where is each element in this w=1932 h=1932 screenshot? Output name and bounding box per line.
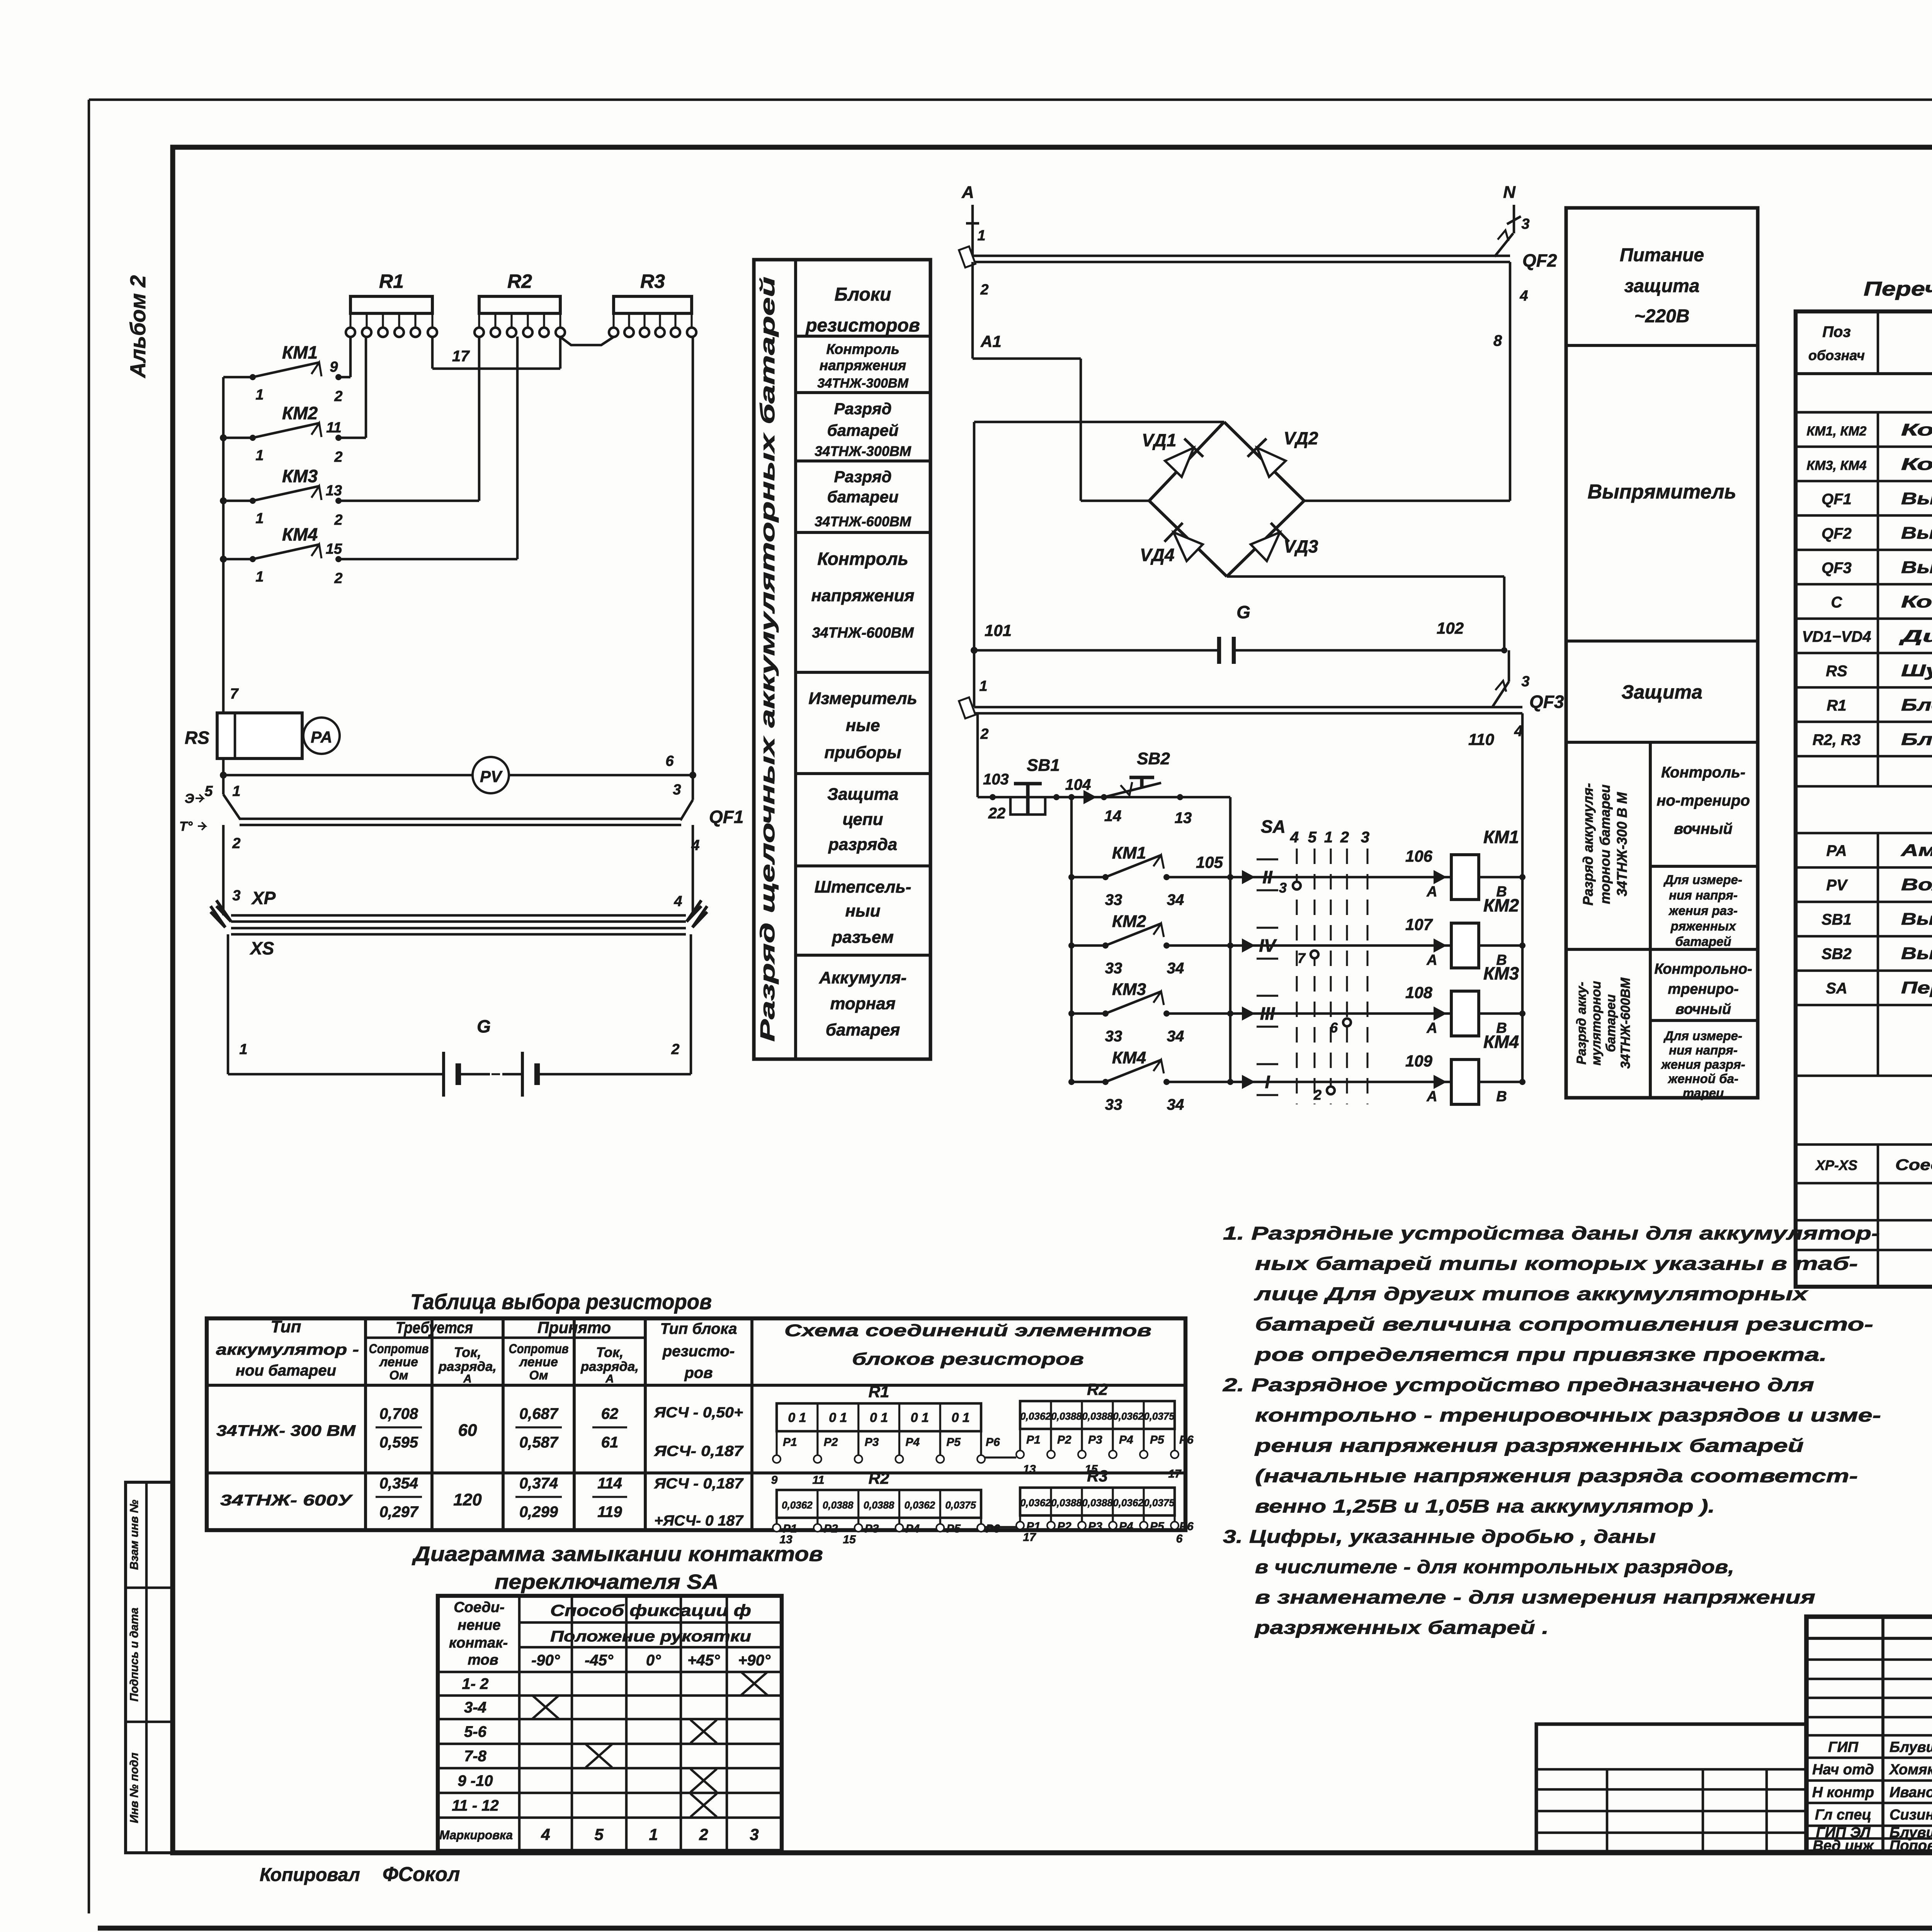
svg-text:SB1: SB1 bbox=[1027, 756, 1060, 775]
svg-text:Р2: Р2 bbox=[1057, 1520, 1071, 1533]
svg-text:PV: PV bbox=[1826, 877, 1848, 894]
svg-text:3: 3 bbox=[1521, 216, 1529, 232]
svg-text:Р2: Р2 bbox=[1057, 1434, 1071, 1446]
svg-text:0,299: 0,299 bbox=[519, 1503, 558, 1520]
svg-text:0,0388: 0,0388 bbox=[823, 1499, 854, 1511]
svg-text:Р4: Р4 bbox=[905, 1522, 920, 1535]
svg-text:ХР: ХР bbox=[251, 888, 276, 908]
svg-text:QF3: QF3 bbox=[1821, 560, 1852, 577]
svg-text:34ТНЖ-300 В М: 34ТНЖ-300 В М bbox=[1614, 792, 1630, 896]
svg-text:Р1: Р1 bbox=[783, 1436, 797, 1449]
svg-text:SB2: SB2 bbox=[1821, 946, 1852, 963]
svg-text:Вольтметр М4203. Предел 0-7: Вольтметр М4203. Предел 0-75 В bbox=[1901, 875, 1932, 894]
svg-text:Разряд: Разряд bbox=[834, 400, 891, 418]
svg-text:RS: RS bbox=[1826, 663, 1847, 680]
svg-text:ХР-ХS: ХР-ХS bbox=[1815, 1157, 1857, 1173]
svg-text:VД1: VД1 bbox=[1142, 430, 1176, 450]
svg-text:6: 6 bbox=[1176, 1532, 1183, 1545]
svg-text:Блувштейн: Блувштейн bbox=[1889, 1739, 1932, 1755]
svg-text:батареи: батареи bbox=[1604, 994, 1618, 1052]
svg-text:батарей величина сопротивлен: батарей величина сопротивления резисто- bbox=[1255, 1315, 1873, 1335]
svg-text:R3: R3 bbox=[640, 270, 665, 292]
svg-text:приборы: приборы bbox=[824, 743, 901, 762]
svg-text:IV: IV bbox=[1259, 935, 1277, 956]
svg-text:ров: ров bbox=[684, 1364, 713, 1381]
svg-text:Р5: Р5 bbox=[946, 1522, 961, 1535]
svg-text:0,0388: 0,0388 bbox=[1051, 1410, 1082, 1422]
svg-text:108: 108 bbox=[1405, 983, 1433, 1002]
svg-text:Р4: Р4 bbox=[1119, 1434, 1133, 1446]
svg-text:Выключатель ВА51-25Р, ~220В ,: Выключатель ВА51-25Р, ~220В , Эр=6,3А bbox=[1901, 524, 1932, 543]
svg-text:Перечень элементов принципиаль: Перечень элементов принципиальнои схемы bbox=[1864, 278, 1932, 300]
svg-text:105: 105 bbox=[1196, 853, 1223, 871]
svg-text:0,0388: 0,0388 bbox=[1082, 1497, 1113, 1509]
svg-text:9: 9 bbox=[330, 359, 338, 375]
svg-text:РА: РА bbox=[311, 728, 332, 746]
svg-text:109: 109 bbox=[1405, 1052, 1433, 1070]
svg-text:Для измере-: Для измере- bbox=[1663, 1029, 1742, 1043]
svg-text:1: 1 bbox=[255, 510, 264, 527]
svg-text:ния напря-: ния напря- bbox=[1669, 888, 1738, 902]
svg-text:+90°: +90° bbox=[738, 1652, 771, 1669]
svg-text:КМ3: КМ3 bbox=[282, 466, 318, 486]
svg-text:0,0362: 0,0362 bbox=[1020, 1410, 1051, 1422]
svg-text:батарея: батарея bbox=[826, 1020, 900, 1039]
svg-text:107: 107 bbox=[1405, 915, 1433, 934]
svg-text:Штепсель-: Штепсель- bbox=[815, 878, 912, 896]
svg-text:SB2: SB2 bbox=[1137, 749, 1170, 768]
svg-text:рения напряжения разряженных: рения напряжения разряженных батарей bbox=[1254, 1436, 1804, 1456]
svg-text:2: 2 bbox=[1340, 829, 1349, 846]
svg-text:тареи: тареи bbox=[1683, 1086, 1724, 1100]
svg-text:Р5: Р5 bbox=[1150, 1434, 1165, 1446]
svg-text:120: 120 bbox=[453, 1490, 482, 1509]
svg-text:Р3: Р3 bbox=[1088, 1434, 1102, 1446]
svg-text:защита: защита bbox=[1624, 276, 1700, 296]
svg-text:КМ1: КМ1 bbox=[1483, 827, 1519, 847]
svg-text:0,0375: 0,0375 bbox=[945, 1499, 976, 1511]
svg-text:17: 17 bbox=[1023, 1531, 1036, 1544]
svg-text:34ТНЖ-600ВМ: 34ТНЖ-600ВМ bbox=[1618, 978, 1633, 1069]
svg-text:Контроль: Контроль bbox=[826, 341, 899, 357]
svg-text:3: 3 bbox=[232, 888, 240, 904]
svg-text:Защита: Защита bbox=[1621, 681, 1702, 703]
svg-text:7-8: 7-8 bbox=[464, 1748, 487, 1765]
svg-text:Сопротив: Сопротив bbox=[369, 1342, 429, 1356]
svg-text:А1: А1 bbox=[980, 332, 1002, 350]
svg-text:3: 3 bbox=[1521, 673, 1529, 690]
svg-text:Шунт 150 ШСМУЗ- 0,5: Шунт 150 ШСМУЗ- 0,5 bbox=[1901, 661, 1932, 680]
svg-text:3: 3 bbox=[1279, 880, 1287, 896]
svg-text:15: 15 bbox=[326, 541, 342, 557]
svg-text:RS: RS bbox=[185, 728, 209, 748]
svg-text:торнои батареи: торнои батареи bbox=[1597, 784, 1613, 904]
svg-text:Р4: Р4 bbox=[905, 1436, 920, 1449]
svg-text:Разряд аккумуля-: Разряд аккумуля- bbox=[1580, 783, 1596, 905]
svg-text:Гл спец: Гл спец bbox=[1815, 1807, 1871, 1823]
svg-text:Р3: Р3 bbox=[865, 1522, 879, 1535]
svg-text:2: 2 bbox=[334, 512, 342, 528]
svg-text:нои батареи: нои батареи bbox=[236, 1362, 336, 1379]
svg-text:ление: ление bbox=[519, 1355, 558, 1369]
svg-text:С: С bbox=[1831, 594, 1843, 611]
svg-text:Выключатель ВА51-33 ~380В, Эр: Выключатель ВА51-33 ~380В, Эр=125А bbox=[1901, 489, 1932, 508]
svg-text:Р3: Р3 bbox=[1088, 1520, 1102, 1533]
svg-text:33: 33 bbox=[1105, 1096, 1122, 1113]
svg-text:жения раз-: жения раз- bbox=[1668, 903, 1738, 918]
svg-text:Выключатель КЕ011У3 Исп 2: Выключатель КЕ011У3 Исп 2 толк красн bbox=[1901, 910, 1932, 929]
svg-text:Р6: Р6 bbox=[986, 1436, 1000, 1449]
svg-text:0°: 0° bbox=[646, 1652, 661, 1669]
svg-text:0,0388: 0,0388 bbox=[1051, 1497, 1082, 1509]
svg-text:34ТНЖ-300ВМ: 34ТНЖ-300ВМ bbox=[815, 443, 911, 459]
svg-text:0 1: 0 1 bbox=[951, 1410, 969, 1425]
svg-text:R1: R1 bbox=[1827, 697, 1846, 714]
svg-text:33: 33 bbox=[1105, 1028, 1122, 1045]
svg-text:SА: SА bbox=[1261, 816, 1286, 837]
svg-text:0,0362: 0,0362 bbox=[1020, 1497, 1051, 1509]
svg-text:резисторов: резисторов bbox=[805, 315, 920, 336]
svg-text:2: 2 bbox=[334, 570, 342, 587]
svg-text:Блок резисторов ЯСЧУЗ, 0,18: Блок резисторов ЯСЧУЗ, 0,187 Ом bbox=[1901, 730, 1932, 749]
svg-text:Контактор МКЗ-10 И - 220В: Контактор МКЗ-10 И - 220В bbox=[1901, 420, 1932, 439]
svg-text:2: 2 bbox=[1313, 1087, 1321, 1103]
svg-text:Выключатель КЕ011У3 Исп 2 т: Выключатель КЕ011У3 Исп 2 толк черн bbox=[1901, 944, 1932, 963]
svg-text:Хомяк: Хомяк bbox=[1889, 1762, 1932, 1778]
svg-text:4: 4 bbox=[1290, 829, 1299, 846]
svg-text:III: III bbox=[1260, 1003, 1276, 1024]
svg-text:119: 119 bbox=[597, 1503, 622, 1520]
svg-text:Р6: Р6 bbox=[1179, 1434, 1194, 1446]
svg-text:напряжения: напряжения bbox=[811, 586, 915, 605]
svg-text:QF1: QF1 bbox=[709, 807, 743, 827]
svg-text:13: 13 bbox=[1023, 1463, 1036, 1476]
svg-text:ров определяется при привяз: ров определяется при привязке проекта. bbox=[1254, 1345, 1827, 1365]
svg-text:Выключатель ВА51-25Р, ≈220В,: Выключатель ВА51-25Р, ≈220В, Эр=6,3А bbox=[1901, 558, 1932, 577]
svg-text:(начальные напряжения разряд: (начальные напряжения разряда соответст- bbox=[1255, 1466, 1858, 1486]
svg-text:ные: ные bbox=[846, 716, 880, 735]
svg-text:КМ4: КМ4 bbox=[1112, 1048, 1146, 1067]
svg-text:РА: РА bbox=[1826, 842, 1847, 859]
svg-text:0,0388: 0,0388 bbox=[1082, 1410, 1113, 1422]
svg-text:5-6: 5-6 bbox=[464, 1723, 487, 1740]
svg-text:0,708: 0,708 bbox=[379, 1405, 418, 1422]
svg-text:Маркировка: Маркировка bbox=[439, 1828, 513, 1842]
svg-text:КМ4: КМ4 bbox=[282, 524, 318, 544]
svg-text:Р5: Р5 bbox=[946, 1436, 961, 1449]
svg-text:обознач: обознач bbox=[1808, 347, 1865, 363]
svg-text:торная: торная bbox=[830, 994, 895, 1013]
svg-text:3: 3 bbox=[673, 782, 681, 798]
svg-text:34ТНЖ- 600У: 34ТНЖ- 600У bbox=[220, 1492, 353, 1509]
svg-text:R1: R1 bbox=[379, 270, 404, 292]
svg-text:1. Разрядные устройства даны: 1. Разрядные устройства даны для аккумул… bbox=[1223, 1223, 1880, 1244]
svg-text:напряжения: напряжения bbox=[820, 357, 906, 373]
svg-text:Нач отд: Нач отд bbox=[1812, 1762, 1874, 1778]
svg-text:Для измере-: Для измере- bbox=[1663, 872, 1742, 887]
svg-text:9: 9 bbox=[771, 1474, 778, 1486]
svg-text:61: 61 bbox=[601, 1434, 619, 1451]
svg-text:6: 6 bbox=[665, 753, 674, 769]
svg-text:SА: SА bbox=[1826, 980, 1847, 997]
svg-text:батарей: батарей bbox=[827, 421, 899, 439]
svg-text:3: 3 bbox=[750, 1825, 759, 1844]
svg-text:0 1: 0 1 bbox=[788, 1410, 806, 1425]
svg-text:Тип блока: Тип блока bbox=[660, 1320, 737, 1337]
svg-text:0,687: 0,687 bbox=[519, 1405, 559, 1422]
svg-text:батарей: батарей bbox=[1675, 934, 1731, 949]
svg-text:резисто-: резисто- bbox=[662, 1343, 735, 1360]
svg-text:4: 4 bbox=[1519, 288, 1528, 304]
svg-text:1: 1 bbox=[1324, 829, 1333, 846]
svg-text:1: 1 bbox=[979, 678, 987, 694]
svg-text:Требуется: Требуется bbox=[396, 1318, 473, 1337]
svg-text:QF3: QF3 bbox=[1529, 692, 1564, 712]
svg-text:Питание: Питание bbox=[1620, 245, 1704, 265]
svg-text:VД3: VД3 bbox=[1284, 536, 1318, 556]
svg-text:Н контр: Н контр bbox=[1812, 1784, 1874, 1801]
svg-text:А: А bbox=[1426, 884, 1437, 900]
svg-text:34ТНЖ-600ВМ: 34ТНЖ-600ВМ bbox=[812, 625, 914, 641]
svg-text:4: 4 bbox=[673, 893, 682, 910]
svg-text:33: 33 bbox=[1105, 960, 1122, 977]
svg-text:102: 102 bbox=[1437, 619, 1464, 637]
svg-text:нение: нение bbox=[457, 1617, 500, 1633]
svg-text:0,587: 0,587 bbox=[519, 1434, 559, 1451]
svg-text:1: 1 bbox=[239, 1041, 247, 1058]
svg-text:103: 103 bbox=[983, 771, 1009, 788]
svg-text:3: 3 bbox=[1361, 829, 1369, 846]
svg-text:трениро-: трениро- bbox=[1668, 981, 1738, 997]
svg-text:1- 2: 1- 2 bbox=[462, 1675, 489, 1692]
svg-text:Конденсатор МБГО-2-400-10-П: Конденсатор МБГО-2-400-10-П bbox=[1901, 592, 1932, 611]
svg-text:104: 104 bbox=[1065, 776, 1091, 793]
svg-text:женной ба-: женной ба- bbox=[1667, 1071, 1738, 1086]
svg-text:34ТНЖ-600ВМ: 34ТНЖ-600ВМ bbox=[815, 514, 911, 529]
svg-text:Выпрямитель: Выпрямитель bbox=[1588, 481, 1736, 503]
svg-text:R2: R2 bbox=[869, 1469, 889, 1487]
svg-text:11: 11 bbox=[326, 420, 341, 436]
svg-text:+45°: +45° bbox=[687, 1652, 720, 1669]
svg-text:Иванова: Иванова bbox=[1889, 1784, 1932, 1801]
svg-text:ГИП: ГИП bbox=[1828, 1739, 1859, 1755]
svg-text:2. Разрядное устройство пред: 2. Разрядное устройство предназначено дл… bbox=[1223, 1375, 1814, 1396]
svg-text:А: А bbox=[1426, 1020, 1437, 1036]
svg-text:R2: R2 bbox=[507, 270, 532, 292]
svg-text:11: 11 bbox=[812, 1474, 824, 1486]
svg-text:Взам инв №: Взам инв № bbox=[128, 1500, 141, 1570]
svg-text:Р1: Р1 bbox=[1026, 1434, 1041, 1446]
svg-text:Р2: Р2 bbox=[824, 1436, 838, 1449]
svg-text:ния напря-: ния напря- bbox=[1669, 1043, 1738, 1057]
svg-text:КМ3, КМ4: КМ3, КМ4 bbox=[1806, 458, 1866, 473]
svg-text:Подпись и дата: Подпись и дата bbox=[128, 1607, 141, 1701]
svg-text:15: 15 bbox=[843, 1533, 856, 1546]
svg-text:SB1: SB1 bbox=[1821, 911, 1852, 928]
svg-text:ление: ление bbox=[379, 1355, 418, 1369]
svg-text:жения разря-: жения разря- bbox=[1660, 1057, 1745, 1071]
svg-text:8: 8 bbox=[1493, 332, 1502, 349]
svg-text:0 1: 0 1 bbox=[870, 1410, 888, 1425]
svg-text:17: 17 bbox=[1168, 1468, 1182, 1480]
svg-text:QF2: QF2 bbox=[1522, 250, 1557, 270]
svg-text:Аккумуля-: Аккумуля- bbox=[819, 968, 906, 987]
svg-text:Альбом 2: Альбом 2 bbox=[126, 275, 150, 379]
svg-text:Сизинцев: Сизинцев bbox=[1889, 1807, 1932, 1823]
svg-text:КМ2: КМ2 bbox=[1483, 895, 1519, 915]
svg-text:2: 2 bbox=[699, 1825, 708, 1844]
svg-text:34ТНЖ-300ВМ: 34ТНЖ-300ВМ bbox=[817, 376, 908, 391]
svg-text:11 - 12: 11 - 12 bbox=[452, 1797, 499, 1814]
svg-text:Э: Э bbox=[185, 791, 194, 806]
svg-text:-45°: -45° bbox=[585, 1652, 614, 1669]
svg-text:-90°: -90° bbox=[531, 1652, 560, 1669]
svg-text:+ЯСЧ- 0 187: +ЯСЧ- 0 187 bbox=[654, 1513, 744, 1529]
svg-text:II: II bbox=[1262, 867, 1273, 887]
svg-text:цепи: цепи bbox=[843, 810, 883, 829]
svg-text:2: 2 bbox=[334, 388, 342, 405]
svg-text:0,595: 0,595 bbox=[379, 1434, 418, 1451]
svg-text:Контроль: Контроль bbox=[817, 549, 908, 569]
svg-text:6: 6 bbox=[1330, 1020, 1338, 1036]
svg-text:А: А bbox=[1426, 1088, 1437, 1105]
svg-text:5: 5 bbox=[594, 1825, 604, 1844]
svg-text:блоков резисторов: блоков резисторов bbox=[852, 1350, 1084, 1369]
svg-text:В: В bbox=[1496, 1088, 1507, 1105]
svg-text:в числителе - для контрольны: в числителе - для контрольных разрядов, bbox=[1255, 1557, 1734, 1578]
svg-text:1: 1 bbox=[232, 783, 240, 799]
svg-text:Р4: Р4 bbox=[1119, 1520, 1133, 1533]
svg-text:КМ1: КМ1 bbox=[282, 342, 318, 362]
svg-text:разряженных батарей .: разряженных батарей . bbox=[1254, 1618, 1549, 1638]
svg-text:Контрольно-: Контрольно- bbox=[1654, 961, 1752, 977]
svg-text:VД4: VД4 bbox=[1140, 545, 1174, 565]
svg-text:34ТНЖ- 300 ВМ: 34ТНЖ- 300 ВМ bbox=[216, 1422, 356, 1439]
svg-text:Ток,: Ток, bbox=[596, 1344, 624, 1360]
svg-text:разъем: разъем bbox=[832, 928, 894, 947]
svg-text:Таблица выбора резисторов: Таблица выбора резисторов bbox=[410, 1289, 712, 1314]
svg-text:1: 1 bbox=[255, 447, 264, 464]
svg-text:G: G bbox=[477, 1016, 491, 1036]
svg-text:I: I bbox=[1265, 1072, 1270, 1092]
svg-text:106: 106 bbox=[1405, 847, 1433, 865]
svg-text:4: 4 bbox=[541, 1825, 550, 1844]
svg-text:0,0388: 0,0388 bbox=[864, 1499, 895, 1511]
svg-text:А: А bbox=[463, 1372, 472, 1385]
svg-text:0,0362: 0,0362 bbox=[905, 1499, 935, 1511]
svg-text:разряда,: разряда, bbox=[438, 1359, 497, 1374]
svg-text:2: 2 bbox=[671, 1041, 679, 1058]
svg-text:ФСокол: ФСокол bbox=[383, 1863, 460, 1886]
svg-text:ХS: ХS bbox=[249, 938, 274, 958]
svg-text:60: 60 bbox=[458, 1421, 477, 1440]
svg-text:Разряд: Разряд bbox=[834, 468, 891, 486]
svg-text:ЯСЧ- 0,187: ЯСЧ- 0,187 bbox=[654, 1443, 744, 1459]
svg-text:9 -10: 9 -10 bbox=[457, 1772, 493, 1789]
svg-text:ЯСЧ - 0,187: ЯСЧ - 0,187 bbox=[654, 1476, 744, 1492]
svg-text:7: 7 bbox=[230, 686, 239, 702]
svg-text:G: G bbox=[1236, 602, 1250, 622]
svg-text:контрольно - тренировочных ра: контрольно - тренировочных разрядов и из… bbox=[1255, 1405, 1881, 1426]
svg-text:Защита: Защита bbox=[827, 785, 898, 804]
svg-text:аккумулятор -: аккумулятор - bbox=[216, 1341, 359, 1358]
svg-text:Инв № подл: Инв № подл bbox=[128, 1752, 141, 1823]
svg-text:переключателя SА: переключателя SА bbox=[495, 1570, 719, 1594]
svg-text:А: А bbox=[1426, 952, 1437, 968]
svg-text:Переключатель ПКУЗ-16Л3035У3: Переключатель ПКУЗ-16Л3035У3 bbox=[1901, 978, 1932, 997]
svg-text:QF2: QF2 bbox=[1821, 525, 1852, 542]
svg-text:1: 1 bbox=[255, 387, 264, 403]
svg-text:в знаменателе - для измерени: в знаменателе - для измерения напряжения bbox=[1255, 1587, 1815, 1608]
svg-text:R2: R2 bbox=[1087, 1380, 1108, 1398]
svg-text:0 1: 0 1 bbox=[911, 1410, 929, 1425]
svg-text:1: 1 bbox=[977, 228, 985, 244]
svg-text:5: 5 bbox=[204, 783, 213, 799]
svg-text:Разряд щелочных аккумуляторных: Разряд щелочных аккумуляторных батарей bbox=[757, 277, 779, 1042]
svg-text:34: 34 bbox=[1167, 1028, 1184, 1045]
svg-text:вочный: вочный bbox=[1674, 820, 1733, 837]
svg-text:А: А bbox=[605, 1372, 614, 1385]
svg-text:VД2: VД2 bbox=[1284, 428, 1318, 448]
svg-text:5: 5 bbox=[1308, 829, 1317, 846]
svg-text:Р5: Р5 bbox=[1150, 1520, 1165, 1533]
svg-text:17: 17 bbox=[452, 348, 470, 365]
svg-text:QF1: QF1 bbox=[1821, 491, 1852, 508]
svg-text:Сопротив: Сопротив bbox=[509, 1342, 569, 1356]
svg-text:Измеритель: Измеритель bbox=[808, 689, 917, 708]
svg-text:Копировал: Копировал bbox=[260, 1865, 360, 1885]
svg-text:Блоки: Блоки bbox=[835, 284, 891, 305]
svg-text:2: 2 bbox=[980, 282, 988, 298]
svg-text:ряженных: ряженных bbox=[1670, 919, 1736, 933]
svg-text:разряда: разряда bbox=[828, 835, 897, 854]
svg-text:Р6: Р6 bbox=[1179, 1520, 1194, 1533]
svg-text:~220В: ~220В bbox=[1634, 306, 1690, 327]
svg-text:0,0375: 0,0375 bbox=[1144, 1497, 1175, 1509]
svg-text:Вед инж: Вед инж bbox=[1813, 1838, 1874, 1854]
svg-text:КМ3: КМ3 bbox=[1483, 963, 1519, 983]
svg-text:Блок резисторов ЯСЧУЗ, 0,5: Блок резисторов ЯСЧУЗ, 0,5 Ом bbox=[1901, 696, 1932, 714]
svg-text:Ом: Ом bbox=[389, 1368, 408, 1382]
svg-text:А: А bbox=[961, 183, 974, 202]
svg-text:Способ фиксации ф: Способ фиксации ф bbox=[550, 1601, 751, 1619]
svg-text:муляторнои: муляторнои bbox=[1589, 981, 1604, 1065]
svg-text:Контроль-: Контроль- bbox=[1661, 764, 1745, 781]
svg-text:Амперметр М4203. Предел 0-1: Амперметр М4203. Предел 0-150 А bbox=[1901, 841, 1932, 860]
svg-text:КМ2: КМ2 bbox=[282, 403, 318, 423]
svg-text:лице Для других типов акку: лице Для других типов аккумуляторных bbox=[1254, 1284, 1809, 1304]
svg-text:ных батарей типы которых у: ных батарей типы которых указаны в таб- bbox=[1255, 1254, 1858, 1274]
svg-text:2: 2 bbox=[334, 449, 342, 465]
svg-text:КМ4: КМ4 bbox=[1483, 1032, 1519, 1052]
svg-text:КМ3: КМ3 bbox=[1112, 980, 1146, 999]
svg-text:R2, R3: R2, R3 bbox=[1813, 731, 1861, 748]
svg-text:Разряд акку-: Разряд акку- bbox=[1574, 982, 1589, 1065]
svg-text:Тип: Тип bbox=[271, 1317, 301, 1336]
svg-text:110: 110 bbox=[1468, 730, 1494, 748]
svg-text:Диаграмма замыкании контакто: Диаграмма замыкании контактов bbox=[412, 1543, 823, 1566]
svg-text:13: 13 bbox=[326, 483, 342, 499]
svg-text:0,374: 0,374 bbox=[519, 1475, 558, 1492]
svg-text:Положение рукоятки: Положение рукоятки bbox=[550, 1628, 751, 1645]
svg-text:Р2: Р2 bbox=[824, 1522, 838, 1535]
svg-text:Схема соединений элементов: Схема соединений элементов bbox=[784, 1321, 1151, 1340]
svg-text:но-трениро: но-трениро bbox=[1656, 792, 1750, 809]
svg-text:Диод Д 246 Б: Диод Д 246 Б bbox=[1898, 627, 1932, 646]
svg-text:2: 2 bbox=[980, 726, 988, 742]
svg-text:0,0362: 0,0362 bbox=[1113, 1410, 1144, 1422]
svg-text:N: N bbox=[1503, 183, 1516, 202]
